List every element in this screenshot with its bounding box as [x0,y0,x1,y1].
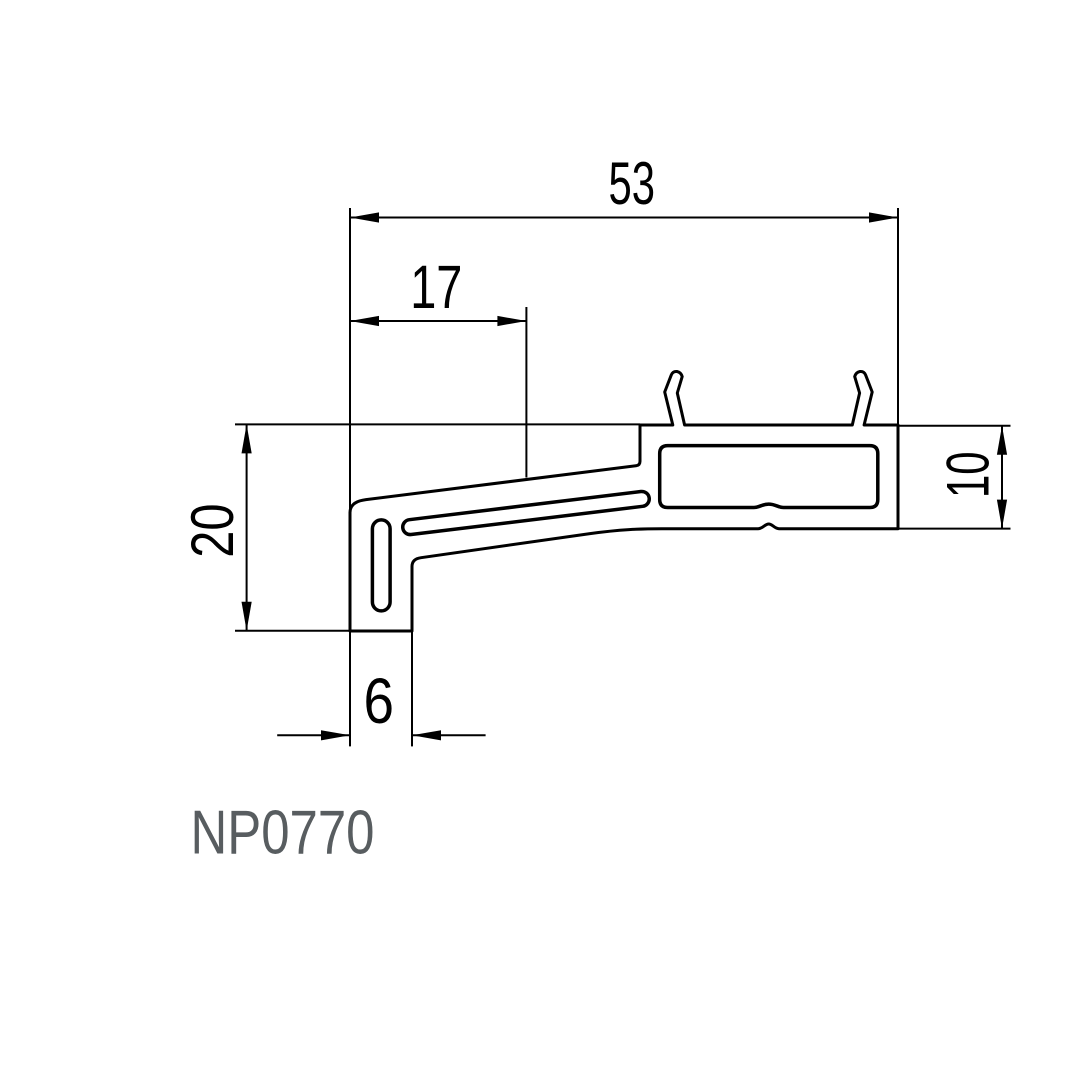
extension line 6 right x=412 [411,631,413,746]
dimension line 6 left tail [277,734,350,736]
extension line left x=350 [349,208,351,746]
extension line 20 bottom y=630.7 [235,630,350,632]
dimension line 10 [1001,426,1003,529]
arrowhead 20 bottom [242,602,252,631]
arrowhead 6 left [321,730,350,740]
arrowhead 10 bottom [997,500,1007,529]
arrowhead 53 right [869,212,898,222]
arrowhead 17 right [497,316,526,326]
inner hollow chamber [660,446,878,508]
dimension line 6 right tail [412,734,486,736]
arrowhead 10 top [997,426,1007,455]
arrowhead 17 left [350,316,379,326]
extension line 20 top y=424.4 [235,423,640,425]
arrowhead 20 top [242,424,252,453]
dimension line 20 [246,424,248,630]
extension line right x=898 [897,208,899,425]
extension line 10 bottom y=528.6 [898,528,1011,530]
extension line 17 right x=526.4 [525,307,527,478]
dimension line 17 [350,320,526,322]
dimension line 53 [350,217,898,219]
svg-text:53: 53 [609,150,656,217]
profile outer outline with clip prongs [350,371,898,631]
svg-text:10: 10 [935,452,1002,499]
arrowhead 6 right [412,730,441,740]
svg-text:NP0770: NP0770 [191,798,375,868]
leg slot [372,520,390,611]
extension line 10 top y=425.8 [898,425,1011,427]
svg-text:20: 20 [179,504,246,558]
svg-text:17: 17 [410,253,462,321]
arm slot [403,491,649,534]
svg-text:6: 6 [364,665,395,737]
arrowhead 53 left [350,212,379,222]
